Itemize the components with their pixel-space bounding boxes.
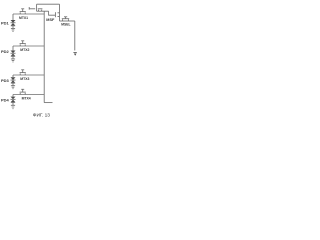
transistor MRES drain lead from rail (36, 4, 38, 11)
wire PD1 drop (12, 14, 14, 20)
row 1: transistor MTX1 gate terminal tick (21, 8, 24, 10)
transistor MSF channel ticks (58, 13, 60, 17)
svg-text:MTX4: MTX4 (22, 97, 31, 101)
wire PD2 anode lead (12, 56, 14, 59)
wire FD bus bottom elbow (44, 102, 52, 104)
output arrow on column line (74, 54, 77, 56)
transistor MTX1 channel ticks (20, 12, 25, 14)
svg-text:PD2: PD2 (1, 49, 10, 54)
photodiode PD3 lower triangle apex up (11, 80, 15, 82)
transistor MTX1 gate lead (22, 9, 24, 12)
wire PD4 drop (12, 95, 14, 97)
wire PD2 drop (12, 46, 14, 51)
transistor MTX1 gate bar (20, 11, 26, 13)
transistor MTX4 gate bar (20, 91, 26, 93)
svg-text:MTX1: MTX1 (19, 16, 28, 20)
photodiode PD2 waist bar (11, 52, 16, 54)
transistor MTX4 channel ticks (20, 93, 25, 95)
transistor MTX3 gate lead (22, 70, 24, 73)
photodiode PD4 waist bar (11, 98, 16, 100)
wire column output line (74, 21, 76, 51)
wire PD4 anode lead (12, 102, 14, 105)
svg-text:MTX3: MTX3 (20, 77, 29, 81)
wire FD node horizontal (37, 10, 49, 12)
svg-text:PD4: PD4 (1, 97, 10, 102)
wire VDD rail (37, 3, 60, 5)
svg-text:PD1: PD1 (1, 21, 10, 26)
photodiode PD3 waist bar (11, 79, 16, 81)
row 3: transistor MTX3 gate terminal tick (21, 69, 24, 71)
wire row 3 photodiode to FD bus (13, 74, 44, 76)
transistor MTX2 channel ticks (20, 44, 25, 46)
svg-text:MSEL: MSEL (61, 22, 70, 26)
svg-text:MTX2: MTX2 (20, 48, 29, 52)
output terminal bar (73, 51, 76, 54)
wire FD to MSF gate (49, 11, 56, 15)
transistor MTX3 channel ticks (20, 73, 25, 75)
photodiode PD4 bottom bar (11, 101, 15, 103)
wire MSF source to column (60, 20, 75, 22)
photodiode PD1 waist bar (11, 22, 16, 24)
transistor MTX4 gate lead (22, 89, 24, 92)
transistor MRES channel ticks (39, 10, 42, 12)
wire row 1 photodiode to FD bus (13, 13, 44, 15)
transistor MSF channel vertical with drain from rail (59, 4, 61, 21)
photodiode PD4 triangle apex down (11, 97, 16, 100)
svg-text:PD3: PD3 (1, 78, 10, 83)
photodiode PD1 bottom bar (11, 25, 15, 27)
ground below PD3 (11, 86, 15, 89)
photodiode PD1 lower triangle apex up (11, 23, 15, 25)
wire PD3 drop (12, 75, 14, 77)
wire PD1 anode lead (12, 26, 14, 29)
transistor MSEL gate terminal tick (64, 16, 67, 18)
svg-text:MSF: MSF (46, 18, 55, 22)
wire FD bus vertical (43, 11, 45, 102)
wire row 4 photodiode to FD bus (13, 94, 44, 96)
wire MRES gate lead (29, 8, 35, 10)
photodiode PD3 triangle apex down (11, 77, 16, 80)
photodiode PD2 lower triangle apex up (11, 54, 15, 56)
transistor MRES gate terminal tick (28, 7, 30, 10)
transistor MSEL gate lead (65, 17, 67, 19)
transistor MSEL channel ticks (63, 19, 69, 21)
ground below PD4 (11, 105, 15, 108)
photodiode PD1 triangle apex down (11, 20, 16, 23)
transistor MTX2 gate lead (22, 41, 24, 44)
photodiode PD2 bottom bar (11, 55, 15, 57)
ground below PD1 (11, 28, 15, 31)
transistor MSF gate bar (54, 12, 56, 17)
photodiode PD3 bottom bar (11, 82, 15, 84)
transistor MRES gate bar (38, 8, 43, 10)
photodiode PD4 lower triangle apex up (11, 100, 15, 102)
wire PD3 anode lead (12, 83, 14, 86)
svg-text:ФИГ. 13: ФИГ. 13 (33, 113, 50, 119)
row 2: transistor MTX2 gate terminal tick (21, 40, 24, 42)
wire row 2 photodiode to FD bus (13, 45, 44, 47)
transistor MTX3 gate bar (20, 72, 26, 74)
photodiode PD2 triangle apex down (11, 51, 16, 54)
transistor MTX2 gate bar (20, 43, 26, 45)
transistor MSEL gate bar (62, 18, 69, 20)
ground below PD2 (11, 59, 15, 62)
row 4: transistor MTX4 gate terminal tick (21, 88, 24, 90)
